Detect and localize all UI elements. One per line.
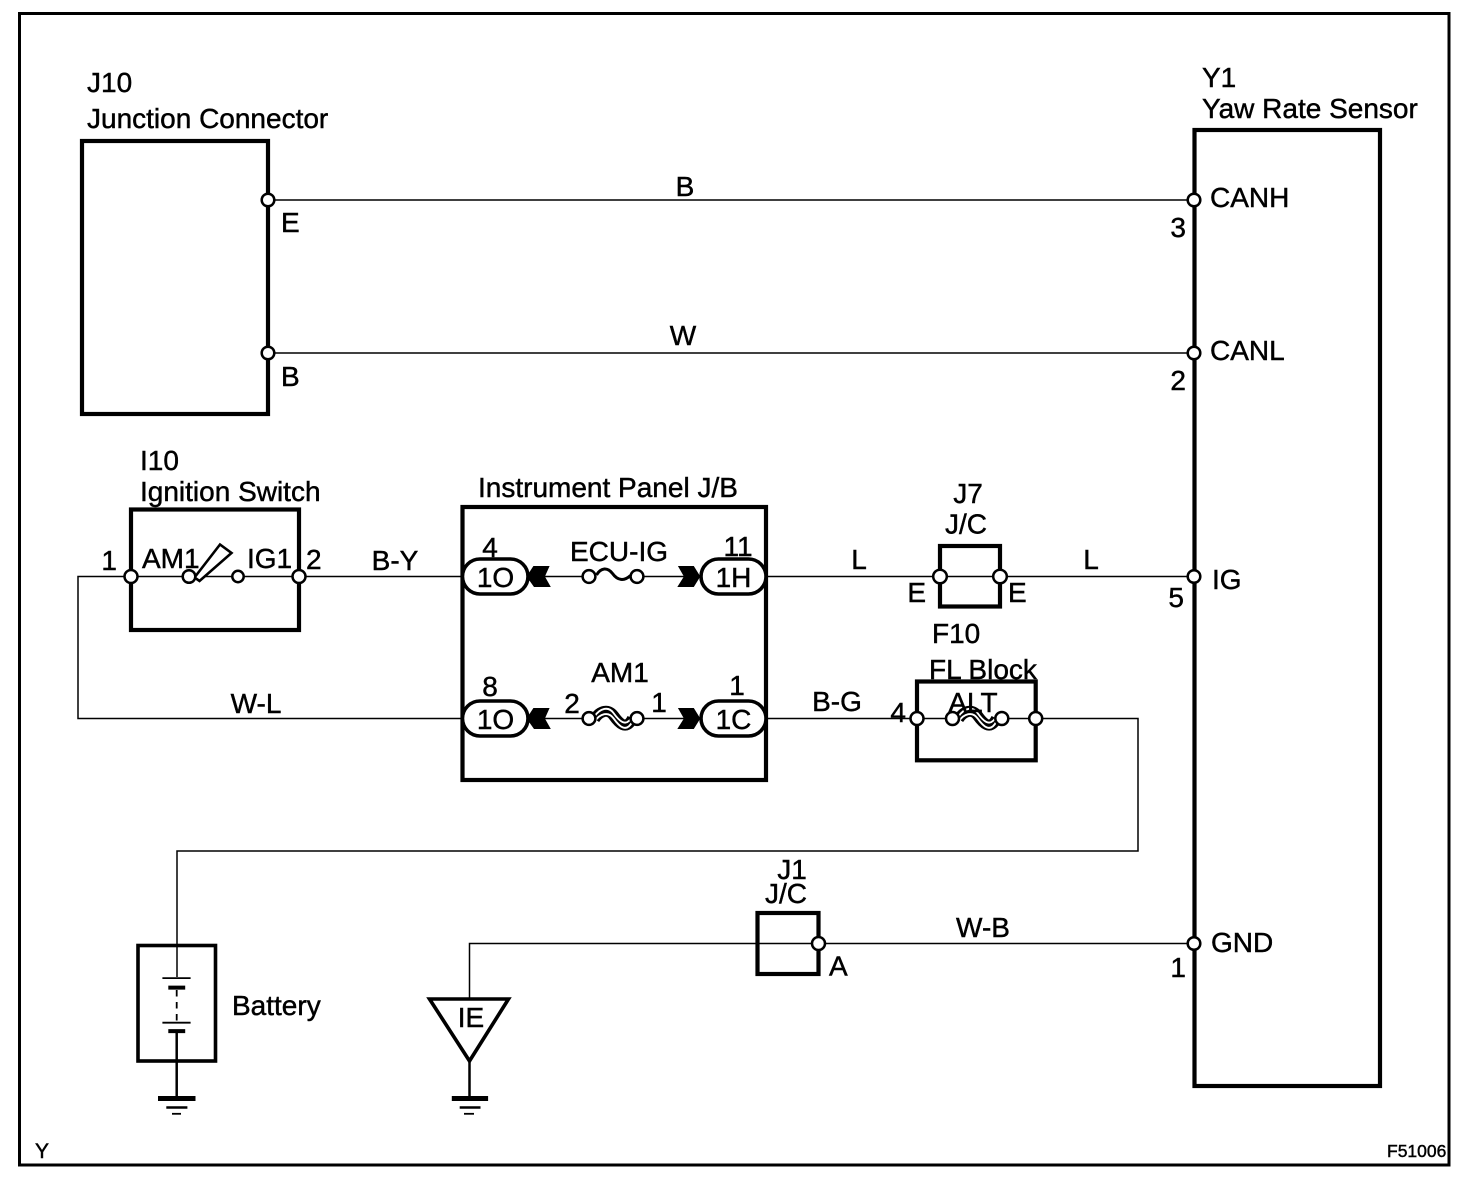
svg-text:Instrument Panel J/B: Instrument Panel J/B [478, 472, 738, 503]
svg-text:5: 5 [1168, 582, 1184, 613]
svg-text:I10: I10 [140, 445, 179, 476]
svg-text:1O: 1O [477, 562, 514, 593]
svg-text:2: 2 [306, 544, 322, 575]
svg-text:J10: J10 [87, 67, 132, 98]
svg-text:W-B: W-B [956, 912, 1010, 943]
svg-text:Y1: Y1 [1202, 62, 1236, 93]
svg-text:W-L: W-L [231, 688, 282, 719]
svg-text:1: 1 [651, 687, 667, 718]
svg-text:F10: F10 [932, 618, 980, 649]
svg-text:1: 1 [101, 545, 117, 576]
svg-text:B: B [281, 361, 300, 392]
svg-text:ECU-IG: ECU-IG [570, 536, 668, 567]
svg-text:AM1: AM1 [591, 657, 649, 688]
svg-text:2: 2 [564, 688, 580, 719]
svg-text:1: 1 [1170, 952, 1186, 983]
svg-text:Yaw Rate Sensor: Yaw Rate Sensor [1202, 93, 1418, 124]
svg-text:J/C: J/C [765, 878, 807, 909]
svg-text:F51006: F51006 [1387, 1141, 1446, 1161]
svg-text:A: A [829, 951, 848, 982]
svg-text:IE: IE [458, 1002, 484, 1033]
svg-text:IG: IG [1212, 564, 1242, 595]
svg-text:1: 1 [729, 670, 745, 701]
svg-text:IG1: IG1 [247, 543, 292, 574]
svg-text:11: 11 [723, 531, 752, 562]
svg-text:J7: J7 [953, 478, 983, 509]
svg-text:B-Y: B-Y [372, 545, 419, 576]
svg-text:1C: 1C [716, 704, 752, 735]
svg-text:Battery: Battery [232, 990, 321, 1021]
svg-text:ALT: ALT [948, 687, 997, 718]
svg-text:E: E [907, 577, 926, 608]
svg-text:CANH: CANH [1210, 182, 1289, 213]
svg-text:GND: GND [1211, 927, 1273, 958]
svg-text:1O: 1O [477, 704, 514, 735]
svg-text:CANL: CANL [1210, 335, 1285, 366]
svg-text:Junction Connector: Junction Connector [87, 103, 328, 134]
svg-text:3: 3 [1170, 212, 1186, 243]
svg-text:J/C: J/C [945, 509, 987, 540]
svg-text:L: L [1083, 544, 1099, 575]
svg-text:L: L [851, 544, 867, 575]
svg-text:E: E [281, 207, 300, 238]
svg-text:FL Block: FL Block [929, 654, 1038, 685]
svg-text:1H: 1H [716, 562, 752, 593]
svg-text:E: E [1008, 577, 1027, 608]
svg-text:B: B [676, 171, 695, 202]
svg-text:AM1: AM1 [142, 543, 200, 574]
svg-text:4: 4 [482, 532, 498, 563]
svg-text:8: 8 [482, 671, 498, 702]
svg-text:Y: Y [35, 1140, 49, 1163]
svg-text:W: W [670, 320, 697, 351]
svg-text:B-G: B-G [812, 686, 862, 717]
svg-text:Ignition Switch: Ignition Switch [140, 476, 321, 507]
svg-text:4: 4 [890, 697, 906, 728]
svg-text:2: 2 [1170, 365, 1186, 396]
